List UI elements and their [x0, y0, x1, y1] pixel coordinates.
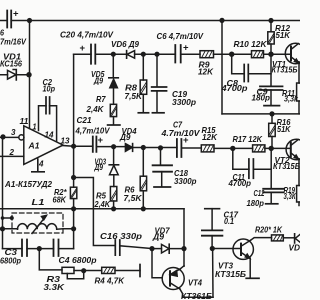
svg-text:11: 11	[20, 116, 29, 126]
node junction C17-VT3 base	[210, 246, 215, 251]
wire R9 to R10	[214, 53, 252, 55]
svg-text:+: +	[183, 135, 189, 146]
svg-text:VT4: VT4	[188, 278, 202, 288]
svg-text:4: 4	[38, 158, 44, 168]
wire VT3 base node down to VT4 collector	[212, 249, 214, 298]
wire R3 bypass loop	[67, 271, 83, 279]
wire top rail	[0, 20, 300, 22]
svg-text:7,5K: 7,5K	[124, 193, 143, 203]
capacitor C16 330p	[115, 240, 120, 255]
wire R20 to VD8	[283, 237, 294, 239]
capacitor C12 180p	[270, 148, 272, 188]
svg-text:3: 3	[11, 127, 16, 137]
capacitor C11 4700p	[233, 148, 271, 169]
transistor VT4 КТ361Б	[162, 268, 184, 290]
svg-text:+: +	[13, 9, 19, 20]
svg-text:Д9: Д9	[152, 232, 164, 242]
wire bottom rail y208.8	[0, 208, 184, 210]
diode VD1 КС156 zener	[0, 74, 30, 76]
svg-text:12K: 12K	[198, 67, 214, 77]
node junction VD7 right	[181, 246, 186, 251]
wire R3 to R4	[74, 270, 102, 272]
wire R4 to terminal	[115, 270, 140, 272]
node junction x160.5 row2	[158, 145, 163, 150]
node junction x143.3 row1	[141, 52, 146, 57]
wire vertical x73.6 output column	[73, 54, 75, 248]
svg-text:4,7m/10V: 4,7m/10V	[75, 126, 111, 136]
svg-text:Д9: Д9	[94, 162, 104, 172]
svg-text:КТ315Б: КТ315Б	[215, 269, 246, 279]
capacitor C4 6800p	[59, 248, 74, 250]
svg-text:3,3К: 3,3К	[284, 191, 297, 201]
node junction pin3 left	[0, 134, 5, 139]
node junction x143.3 row2	[141, 145, 146, 150]
node junction top-left x29.5	[27, 18, 32, 23]
diode VD6 Д9	[126, 51, 128, 59]
capacitor C2 10p	[39, 106, 57, 142]
node junction x113.3 row1	[111, 52, 116, 57]
node junction rail x272	[269, 111, 274, 116]
wire vertical left x2.5	[2, 137, 4, 249]
capacitor C18 3300p	[160, 148, 162, 165]
wire L1 left	[3, 228, 18, 230]
svg-text:R7: R7	[96, 94, 106, 104]
wire x73.6 to C16 branch	[74, 178, 116, 246]
svg-text:51K: 51K	[276, 30, 291, 40]
inductor L1 dashed box	[12, 213, 63, 233]
node junction L1 left	[0, 226, 5, 231]
capacitor C5 (cut at left edge)	[7, 11, 11, 28]
wire C6 to R9	[181, 53, 200, 55]
node junction R5 rail	[111, 206, 116, 211]
resistor R15 12K	[201, 145, 214, 152]
node junction output pin13	[71, 144, 76, 149]
diode VD4 Д9	[125, 144, 132, 152]
svg-text:КТ315Б: КТ315Б	[272, 65, 298, 75]
svg-text:2,4K: 2,4K	[94, 199, 111, 209]
svg-text:C16 330p: C16 330p	[100, 231, 142, 241]
wire pin3 input	[0, 136, 19, 138]
svg-text:+: +	[80, 43, 86, 54]
svg-text:7m/16V: 7m/16V	[0, 37, 27, 47]
resistor R19 3,3K	[298, 159, 300, 186]
inductor L1 coil	[18, 224, 57, 230]
svg-text:R4 4,7K: R4 4,7K	[95, 276, 125, 286]
svg-text:КТ361Б: КТ361Б	[181, 291, 212, 300]
wire VD6 to C6	[135, 53, 176, 55]
resistor R17 12K	[253, 145, 265, 152]
op-amp A1 К157УД2	[24, 126, 63, 165]
svg-text:51K: 51K	[277, 124, 291, 134]
svg-text:R20* 1K: R20* 1K	[255, 224, 283, 234]
wire C21 to VD4	[96, 146, 125, 148]
svg-text:КС156: КС156	[0, 59, 22, 69]
terminal bar R4	[139, 265, 141, 277]
svg-text:3.3K: 3.3K	[44, 282, 66, 292]
capacitor C20 4,7m/10V	[91, 45, 95, 64]
node junction R6 rail	[141, 206, 146, 211]
svg-text:14: 14	[45, 130, 54, 140]
ground pin4	[32, 159, 44, 172]
svg-text:VD8: VD8	[289, 243, 301, 253]
wire C7 to R15	[181, 147, 201, 149]
svg-text:13: 13	[61, 136, 70, 146]
wire C20 to VD6	[95, 53, 126, 55]
capacitor C9 180p	[270, 54, 272, 86]
node junction x231.7 row1	[229, 52, 234, 57]
diode VD3 Д9	[113, 147, 115, 165]
svg-text:4700p: 4700p	[228, 178, 251, 188]
svg-text:C12: C12	[254, 188, 265, 198]
transistor VT3 КТ315Б	[212, 248, 241, 250]
resistor R16 51K	[271, 114, 273, 148]
svg-text:R10 12K: R10 12K	[234, 39, 268, 49]
svg-text:C4 6800p: C4 6800p	[59, 255, 97, 265]
node junction VD1 x29.5	[26, 72, 31, 77]
svg-text:6800p: 6800p	[0, 256, 21, 266]
inductor L1 arrow	[32, 216, 46, 234]
node junction C3-C4	[37, 246, 42, 251]
svg-text:C6 4,7m/10V: C6 4,7m/10V	[157, 31, 205, 41]
svg-text:68K: 68K	[53, 195, 67, 205]
wire vertical x222 rail feed	[221, 20, 223, 114]
resistor R8 7,5K	[142, 54, 144, 80]
svg-text:Д9: Д9	[119, 132, 131, 142]
svg-text:3300p: 3300p	[172, 97, 196, 107]
wire row2 output y146.3	[63, 145, 93, 148]
svg-text:10p: 10p	[43, 84, 56, 94]
svg-text:А1: А1	[28, 140, 40, 150]
diode VD5 Д9	[112, 54, 114, 78]
ground VT3 emitter	[246, 277, 259, 279]
svg-text:R17 12K: R17 12K	[233, 134, 263, 144]
svg-text:2: 2	[9, 147, 15, 157]
capacitor C19 3300p	[156, 54, 158, 86]
resistor R9 12K	[200, 51, 214, 58]
svg-text:3,3k: 3,3k	[284, 94, 298, 104]
svg-text:12K: 12K	[202, 132, 218, 142]
wire R17 to VT2 base	[265, 147, 291, 149]
transistor VT1 КТ315Б	[285, 43, 305, 63]
wire row1 y54.2	[74, 53, 91, 55]
node junction L1 right	[71, 226, 76, 231]
resistor R11 3,3K	[298, 62, 300, 114]
node junction x73.6 y177.5	[71, 175, 76, 180]
wire VD4 to C7	[133, 147, 177, 149]
svg-text:7,5K: 7,5K	[125, 91, 144, 101]
svg-text:+: +	[98, 135, 104, 146]
diode VD8	[294, 234, 296, 243]
capacitor C21 4,7m/10V	[93, 137, 97, 152]
svg-text:А1-К157УД2: А1-К157УД2	[4, 179, 52, 189]
wire VD7 node down to VT4 base	[152, 249, 162, 278]
svg-text:4700p: 4700p	[220, 83, 247, 93]
svg-text:Д9: Д9	[93, 76, 103, 86]
resistor R4 4,7K	[102, 267, 115, 273]
svg-text:180p: 180p	[252, 93, 271, 103]
capacitor C7 4,7m/10V	[177, 139, 182, 157]
capacitor C3 6800p	[3, 248, 54, 250]
resistor R2* 68K	[70, 187, 76, 198]
wire pin2 input	[0, 155, 24, 157]
svg-text:C20 4,7m/10V: C20 4,7m/10V	[60, 30, 114, 40]
wire rail corner down to VD7 node	[183, 209, 185, 266]
svg-text:C21: C21	[77, 115, 92, 125]
resistor R3 3,3K	[39, 249, 62, 270]
diode VD7 Д9	[149, 246, 154, 251]
capacitor C8 4700p	[232, 54, 271, 74]
wire L1 right	[57, 228, 74, 230]
node junction x271 row1	[268, 52, 273, 57]
capacitor C6 4,7m/10V	[175, 45, 180, 63]
svg-text:4.7m/10V: 4.7m/10V	[160, 128, 201, 138]
node junction x157 row1	[154, 52, 159, 57]
wire mid rail right y113.9	[222, 113, 300, 115]
wire R15 to R17	[214, 147, 253, 149]
node junction x232.8 row2	[230, 146, 235, 151]
resistor R7 2,4K	[110, 104, 116, 116]
node junction x113.6 row2	[111, 144, 116, 149]
resistor R12 51K	[270, 21, 272, 55]
wire L1 shield tap	[3, 217, 12, 219]
node junction top x222	[219, 18, 224, 23]
svg-text:КТ315Б: КТ315Б	[273, 161, 300, 171]
node junction x271.2 row2	[269, 146, 274, 151]
svg-text:L1: L1	[32, 197, 45, 207]
wire R10 to VT1 base	[264, 53, 292, 55]
transistor VT2 КТ315Б	[286, 139, 306, 159]
wire vertical x29.5 rail to pin11	[29, 21, 31, 129]
resistor R5 2,4K	[110, 187, 116, 202]
node junction top x271	[268, 18, 273, 23]
resistor R6 7,5K	[142, 148, 144, 177]
node junction R3 right	[81, 268, 86, 273]
svg-text:1: 1	[33, 122, 37, 132]
svg-text:0.1: 0.1	[224, 216, 234, 226]
node junction x73.6 rail	[71, 206, 76, 211]
svg-text:3300p: 3300p	[174, 176, 197, 186]
svg-text:VD6 Д9: VD6 Д9	[111, 39, 139, 49]
capacitor C17 0,1	[205, 208, 220, 210]
svg-text:+: +	[183, 43, 189, 54]
resistor R20* 1K	[272, 235, 284, 241]
svg-text:2,4K: 2,4K	[86, 104, 105, 114]
svg-text:180p: 180p	[247, 198, 265, 208]
resistor R10 12K	[252, 51, 264, 58]
